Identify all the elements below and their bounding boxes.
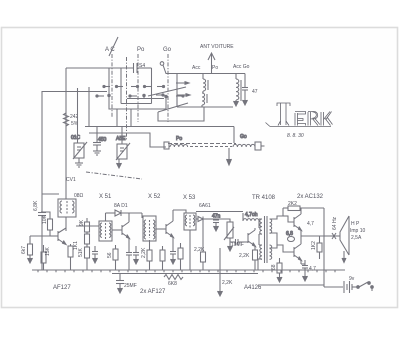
svg-text:A4126: A4126 — [244, 285, 262, 291]
resistor 6K8 — [164, 275, 183, 280]
svg-text:4,7: 4,7 — [307, 221, 314, 227]
speaker HP — [340, 216, 349, 263]
transistor Q6 AC132 — [294, 236, 302, 264]
coil rod Go winding — [233, 134, 265, 150]
resistor 51K — [85, 247, 90, 270]
wire TD to Q6 base — [277, 245, 294, 252]
wire dashed switch gang Po — [137, 54, 139, 122]
antenna ANT VOITURE — [200, 44, 234, 74]
resistor 1K2 — [317, 236, 322, 259]
wire TD secondary top to Q5 base — [270, 216, 295, 222]
wire from circle to wiper — [163, 65, 245, 74]
wire switch U loop — [108, 94, 167, 109]
svg-text:8. 8. 30: 8. 8. 30 — [287, 133, 304, 139]
wire junction x117 — [116, 109, 118, 127]
svg-text:A5E: A5E — [116, 136, 126, 142]
svg-text:2x AC132: 2x AC132 — [297, 194, 324, 200]
resistor 2K2 bias — [85, 232, 90, 247]
wire TD secondary taps — [270, 233, 278, 248]
wire detector to volume — [203, 219, 230, 222]
transformer T3 IF — [184, 213, 196, 230]
transistor Q1 AF127 — [50, 228, 66, 245]
wire left vertical x42 with capacitor 6.8K — [38, 213, 46, 271]
wire junction x89 — [88, 87, 90, 127]
svg-text:9v: 9v — [349, 276, 355, 282]
svg-text:64 Hz: 64 Hz — [332, 216, 338, 230]
capacitor 25MF filter — [116, 274, 124, 293]
capacitor 47 Go — [242, 74, 248, 106]
wire bus y126 — [85, 126, 234, 128]
capacitor S4 — [134, 63, 152, 73]
resistor emitter X52 — [160, 246, 165, 270]
svg-text:TR 4108: TR 4108 — [252, 195, 276, 201]
transformer T0 oscillator — [58, 199, 76, 231]
transformer TD driver — [258, 216, 272, 270]
battery 9v — [344, 281, 357, 293]
svg-text:ANT VOITURE: ANT VOITURE — [200, 44, 234, 50]
transistor Q2 X51 — [112, 213, 130, 248]
capacitor emitter bypass X51 — [126, 248, 132, 270]
wire left vertical x43 — [42, 92, 107, 213]
ground Go coil arrow — [234, 101, 239, 106]
trimmer capacitor A5E — [116, 127, 130, 163]
wire feed W1 y68 — [66, 67, 133, 69]
svg-text:2,2K: 2,2K — [194, 247, 205, 253]
coil L1b antenna Po lower — [202, 93, 207, 107]
potentiometer volume — [224, 222, 234, 245]
svg-text:Go: Go — [163, 47, 172, 53]
svg-text:08Ω: 08Ω — [74, 193, 84, 199]
transistor Q4 AC126 — [245, 228, 256, 250]
switch on-off — [357, 282, 374, 291]
transformer T2 IF — [143, 216, 156, 241]
wire output right vertical — [323, 208, 325, 287]
ferrite rod core — [168, 143, 236, 145]
resistor 242 5% — [64, 113, 79, 127]
resistor emitter AC126 — [253, 250, 258, 270]
wire volume down — [228, 245, 233, 251]
wire coil tap jog y121 — [158, 107, 204, 121]
svg-text:Acc: Acc — [192, 65, 201, 71]
coil L2 antenna Go — [236, 74, 241, 104]
node AC label — [105, 37, 118, 56]
resistor 15K — [41, 245, 46, 270]
resistor bias X52 — [178, 243, 183, 270]
switch lever 2 — [158, 103, 188, 112]
svg-text:H P: H P — [351, 221, 360, 227]
svg-text:68: 68 — [271, 264, 277, 270]
svg-text:2,2K: 2,2K — [239, 253, 250, 259]
svg-text:6K8: 6K8 — [168, 281, 177, 287]
ground capacitor 450 — [93, 151, 101, 155]
transformer T1 IF — [99, 213, 112, 241]
wire CV gang dashed — [86, 172, 142, 179]
capacitor 10MF coupling — [230, 239, 245, 245]
wire base feed — [30, 235, 50, 237]
svg-text:2,2K: 2,2K — [141, 247, 147, 258]
transistor Q5 AC132 — [294, 208, 302, 236]
svg-text:25MF: 25MF — [124, 283, 137, 289]
resistor 1K1 — [68, 244, 73, 270]
svg-text:Po: Po — [176, 136, 182, 142]
svg-text:Go: Go — [240, 134, 247, 140]
svg-text:Imp 10: Imp 10 — [350, 228, 366, 234]
capacitor 450 — [93, 127, 107, 152]
svg-text:15K: 15K — [45, 246, 51, 256]
wire bus y133 to rod — [89, 133, 166, 147]
wire dashed switch gang AC — [111, 54, 113, 118]
svg-text:4,7: 4,7 — [309, 266, 316, 272]
resistor under T3 — [201, 219, 206, 270]
wire Po coil bottom to bus — [177, 106, 233, 108]
svg-text:6,8K: 6,8K — [33, 200, 39, 211]
resistor 2.2K bottom — [218, 248, 223, 296]
ground trimmer 01C — [75, 163, 83, 167]
resistor 9K — [85, 218, 90, 232]
capacitor 6.8 — [286, 231, 295, 242]
svg-text:X 53: X 53 — [183, 195, 196, 201]
wire dashed switch gang S4 — [126, 57, 128, 140]
resistor emitter X51 — [113, 245, 118, 270]
wire dashed switch gang Go — [167, 54, 169, 122]
wire junction x131 — [130, 109, 132, 127]
wire bottom rail B — [112, 273, 258, 275]
svg-text:47: 47 — [252, 89, 258, 95]
svg-text:8A D1: 8A D1 — [114, 203, 128, 209]
wire switch drop x121 — [120, 68, 122, 104]
svg-text:2x AF127: 2x AF127 — [140, 289, 166, 295]
svg-text:01C: 01C — [71, 135, 81, 141]
svg-text:6A61: 6A61 — [199, 203, 211, 209]
svg-text:56: 56 — [107, 252, 113, 258]
wire switch drop x151 — [151, 68, 153, 104]
wire bottom rail A — [32, 269, 345, 271]
capacitor 47n — [212, 214, 221, 232]
capacitor bypass X52 — [170, 247, 176, 264]
capacitor bypass with ground — [92, 246, 98, 263]
wire output node — [301, 235, 324, 237]
svg-text:6k7: 6k7 — [21, 246, 27, 254]
svg-text:AF127: AF127 — [53, 285, 71, 291]
svg-text:Po: Po — [137, 47, 145, 53]
wire to speaker with cross — [324, 233, 340, 239]
ground rod arrow — [227, 148, 232, 165]
switch wiper arrow upper — [176, 82, 189, 85]
wire box bottom — [258, 284, 324, 286]
svg-text:9K: 9K — [79, 219, 85, 226]
resistor 68 — [277, 258, 282, 282]
node switch input circle — [160, 62, 164, 66]
svg-text:X 52: X 52 — [148, 194, 161, 200]
svg-text:2,2K: 2,2K — [222, 280, 233, 286]
switch wiper arrow lower — [177, 94, 190, 108]
transistor Q3 X52 — [156, 210, 174, 247]
coil 470h — [243, 212, 259, 228]
coil rod Po winding — [164, 136, 188, 149]
switch lever — [148, 87, 186, 96]
svg-text:Po: Po — [212, 65, 218, 71]
switch contacts row2 — [96, 94, 184, 97]
svg-text:10K: 10K — [42, 214, 48, 224]
svg-text:A C: A C — [105, 47, 115, 53]
svg-text:X 51: X 51 — [99, 194, 112, 200]
diode OA61 detector — [196, 217, 216, 222]
coil L1a antenna Po upper — [203, 74, 208, 94]
resistor under T2 — [147, 240, 152, 270]
resistor 10K — [41, 212, 53, 236]
capacitor 4.7 — [301, 260, 308, 281]
wire battery feed — [324, 286, 343, 288]
svg-text:10MF: 10MF — [231, 242, 244, 248]
wire top feed — [42, 193, 59, 195]
svg-text:1K2: 1K2 — [311, 241, 317, 250]
svg-text:Acc Go: Acc Go — [233, 64, 250, 70]
capacitor interstage with ground — [133, 246, 139, 264]
wire top y213 with diode OA79 — [106, 210, 143, 218]
trimmer capacitor 01C — [71, 88, 87, 163]
svg-text:2,5A: 2,5A — [351, 235, 362, 241]
svg-text:51K: 51K — [78, 247, 84, 257]
wire T3 bottom — [189, 230, 191, 270]
wire left vertical x66 — [65, 68, 67, 199]
wire supply y213 — [196, 211, 243, 213]
logo LERK — [266, 103, 333, 127]
ground trimmer A5E arrow — [117, 162, 122, 168]
wire converter to T1 — [76, 225, 99, 227]
wire X52 collector to T3 — [173, 210, 186, 213]
wire switch drop x109 — [108, 68, 110, 96]
switch contacts row1 — [103, 85, 165, 87]
svg-text:CV1: CV1 — [66, 177, 76, 183]
resistor 6k7 — [28, 236, 33, 263]
wire rod top bus — [233, 127, 235, 144]
svg-text:4,7oh: 4,7oh — [245, 212, 258, 218]
